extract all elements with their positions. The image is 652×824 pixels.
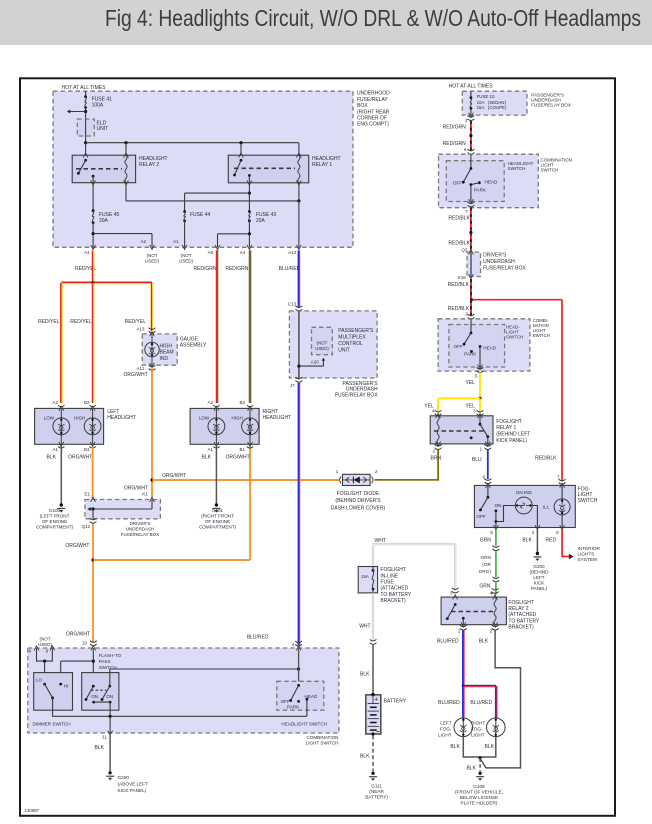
svg-text:BLK: BLK <box>202 455 212 461</box>
svg-text:UNDERDASH: UNDERDASH <box>483 259 515 265</box>
svg-text:HI: HI <box>64 683 69 688</box>
svg-text:B1: B1 <box>239 447 245 452</box>
svg-text:FUSE/RELAY BOX: FUSE/RELAY BOX <box>335 392 378 398</box>
svg-text:ORG): ORG) <box>479 569 492 574</box>
svg-text:LO: LO <box>36 678 43 683</box>
svg-text:(BEHIND DRIVER'S: (BEHIND DRIVER'S <box>335 498 381 504</box>
svg-text:RED/GRN: RED/GRN <box>225 266 248 272</box>
svg-text:ON: ON <box>106 694 113 699</box>
svg-text:BLU/RED: BLU/RED <box>470 700 492 706</box>
svg-text:A12: A12 <box>136 366 145 371</box>
svg-text:RED/YEL: RED/YEL <box>125 319 147 325</box>
svg-text:PARK: PARK <box>287 705 300 710</box>
svg-text:RED/BLK: RED/BLK <box>448 282 470 288</box>
svg-text:SWITCH: SWITCH <box>533 333 550 338</box>
svg-text:A2: A2 <box>140 239 146 244</box>
svg-text:(NOT: (NOT <box>317 341 328 346</box>
svg-text:OFF: OFF <box>281 699 290 704</box>
svg-text:KICK: KICK <box>534 581 546 586</box>
svg-text:BLK: BLK <box>360 754 370 760</box>
svg-text:OFF: OFF <box>453 181 462 186</box>
svg-text:(LEFT FRONT: (LEFT FRONT <box>40 513 70 518</box>
svg-text:ON IND: ON IND <box>516 490 533 495</box>
svg-text:(NOT: (NOT <box>147 253 158 258</box>
svg-text:(BEHIND LEFT: (BEHIND LEFT <box>496 432 530 438</box>
svg-text:ORG/WHT: ORG/WHT <box>68 455 92 461</box>
svg-text:(ABOVE LEFT: (ABOVE LEFT <box>118 781 149 786</box>
svg-text:SYSTEM: SYSTEM <box>578 557 597 562</box>
svg-text:RELAY 1: RELAY 1 <box>312 162 332 168</box>
svg-text:HEADLIGHT: HEADLIGHT <box>107 415 136 421</box>
svg-text:PANEL): PANEL) <box>531 586 548 591</box>
svg-text:FOG-: FOG- <box>440 727 452 732</box>
svg-text:RED/YEL: RED/YEL <box>38 319 60 325</box>
svg-text:PASSENGER'S: PASSENGER'S <box>338 328 374 334</box>
svg-text:RED/GRN: RED/GRN <box>443 141 466 147</box>
svg-text:ORG/WHT: ORG/WHT <box>226 455 250 461</box>
svg-text:PASS: PASS <box>99 659 111 664</box>
svg-text:OF ENGINE: OF ENGINE <box>42 519 67 524</box>
svg-text:PARK: PARK <box>474 187 487 192</box>
svg-text:SWITCH: SWITCH <box>508 166 526 171</box>
svg-text:DASH LOWER COVER): DASH LOWER COVER) <box>331 505 386 511</box>
svg-text:BATTERY): BATTERY) <box>365 795 388 800</box>
svg-text:LOW: LOW <box>44 416 55 421</box>
svg-text:FOG-: FOG- <box>471 727 483 732</box>
svg-text:BLK: BLK <box>485 744 495 750</box>
svg-text:DRIVER'S: DRIVER'S <box>483 253 507 259</box>
svg-text:BLK: BLK <box>479 639 489 645</box>
svg-text:FUSE: FUSE <box>380 580 394 586</box>
svg-text:TO BATTERY: TO BATTERY <box>380 592 412 598</box>
svg-text:KICK PANEL): KICK PANEL) <box>496 438 527 444</box>
svg-text:Q12: Q12 <box>81 524 90 529</box>
svg-text:FUSE/RELAY BOX: FUSE/RELAY BOX <box>483 265 526 271</box>
svg-text:FUSE 10: FUSE 10 <box>477 94 495 99</box>
svg-text:BLK: BLK <box>47 455 57 461</box>
svg-text:WHT: WHT <box>375 538 386 544</box>
svg-text:A1: A1 <box>173 239 179 244</box>
svg-text:HOT AT ALL TIMES: HOT AT ALL TIMES <box>62 85 107 91</box>
svg-text:FOGLIGHT: FOGLIGHT <box>508 600 534 606</box>
svg-text:ASSEMBLY: ASSEMBLY <box>180 343 207 349</box>
svg-text:G108: G108 <box>473 784 485 789</box>
svg-text:KICK PANEL): KICK PANEL) <box>118 788 147 793</box>
svg-text:OF ENGINE: OF ENGINE <box>205 519 230 524</box>
svg-text:BEAM: BEAM <box>160 350 174 356</box>
svg-text:A1: A1 <box>207 447 213 452</box>
svg-text:IN-LINE: IN-LINE <box>380 573 398 579</box>
svg-text:BRACKET): BRACKET) <box>508 624 534 630</box>
svg-text:FUSE/RELAY BOX: FUSE/RELAY BOX <box>531 103 572 108</box>
svg-text:(RIGHT REAR: (RIGHT REAR <box>357 109 390 115</box>
svg-text:LIGHT SWITCH: LIGHT SWITCH <box>306 741 339 746</box>
svg-text:PARK: PARK <box>464 352 477 357</box>
svg-text:G200: G200 <box>533 564 545 569</box>
svg-text:(NOT: (NOT <box>181 253 192 258</box>
svg-text:A13: A13 <box>136 327 145 332</box>
svg-text:ORG/WHT: ORG/WHT <box>162 473 186 479</box>
svg-text:CORNER OF: CORNER OF <box>357 115 387 121</box>
svg-text:A2: A2 <box>52 400 58 405</box>
svg-text:A4: A4 <box>240 250 246 255</box>
svg-text:BATTERY: BATTERY <box>384 699 407 705</box>
svg-text:HEADLIGHT: HEADLIGHT <box>263 415 292 421</box>
svg-text:(NEAR: (NEAR <box>369 789 384 794</box>
svg-text:BLU: BLU <box>472 457 482 463</box>
svg-text:BLK: BLK <box>522 538 532 544</box>
svg-text:A2: A2 <box>207 400 213 405</box>
svg-text:K16: K16 <box>458 275 467 280</box>
svg-text:(BEHIND: (BEHIND <box>530 569 550 574</box>
svg-text:(NOT: (NOT <box>40 637 51 642</box>
svg-text:FOGLIGHT DIODE: FOGLIGHT DIODE <box>337 491 380 497</box>
svg-text:HIGH: HIGH <box>232 416 243 421</box>
svg-text:11: 11 <box>102 735 107 740</box>
svg-text:A5: A5 <box>208 250 214 255</box>
svg-text:RELAY 1: RELAY 1 <box>496 425 516 431</box>
svg-text:ON: ON <box>495 503 502 508</box>
svg-text:HOT AT ALL TIMES: HOT AT ALL TIMES <box>449 84 494 90</box>
svg-text:COMPARTMENT): COMPARTMENT) <box>199 524 237 529</box>
svg-text:FUSE/RELAY: FUSE/RELAY <box>357 97 388 103</box>
svg-text:CONTROL: CONTROL <box>338 341 363 347</box>
svg-text:LEFT: LEFT <box>533 575 544 580</box>
svg-text:BLK: BLK <box>450 744 460 750</box>
svg-text:ON: ON <box>91 694 98 699</box>
svg-text:140997: 140997 <box>24 808 39 813</box>
svg-text:UNDERDASH: UNDERDASH <box>126 527 155 532</box>
svg-text:B1: B1 <box>84 447 90 452</box>
svg-text:RIGHT: RIGHT <box>471 721 485 726</box>
svg-text:BRACKET): BRACKET) <box>380 598 406 604</box>
svg-text:OFF: OFF <box>476 514 485 519</box>
svg-text:IND: IND <box>160 356 169 362</box>
svg-text:RED/GRN: RED/GRN <box>193 266 216 272</box>
svg-text:BOX: BOX <box>357 103 368 109</box>
svg-text:G100: G100 <box>49 508 61 513</box>
svg-text:C13: C13 <box>288 302 297 307</box>
svg-text:LIGHT: LIGHT <box>438 733 452 738</box>
svg-text:HIGH: HIGH <box>160 344 173 350</box>
svg-text:GRN: GRN <box>480 538 492 544</box>
svg-text:LEFT: LEFT <box>440 721 451 726</box>
svg-text:USED): USED) <box>179 258 194 263</box>
svg-text:15A: 15A <box>477 105 485 110</box>
svg-text:RED/BLK: RED/BLK <box>535 456 557 462</box>
svg-text:A13: A13 <box>288 250 297 255</box>
svg-text:UNIT: UNIT <box>97 126 109 132</box>
svg-text:SWITCH: SWITCH <box>541 167 559 172</box>
svg-text:USED): USED) <box>145 258 160 263</box>
svg-text:SWITCH: SWITCH <box>506 335 523 340</box>
svg-text:BLU/RED: BLU/RED <box>247 635 269 641</box>
svg-text:LOW: LOW <box>199 416 210 421</box>
svg-text:100A: 100A <box>92 102 104 108</box>
svg-text:UNDERHOOD: UNDERHOOD <box>357 91 390 97</box>
svg-text:RELAY 2: RELAY 2 <box>508 606 528 612</box>
svg-text:RED/BLK: RED/BLK <box>448 241 470 247</box>
svg-text:COMPARTMENT): COMPARTMENT) <box>36 524 74 529</box>
svg-text:PLATE HOLDER): PLATE HOLDER) <box>461 800 498 805</box>
svg-text:Fig 4: Headlights Circuit, W/O: Fig 4: Headlights Circuit, W/O DRL & W/O… <box>105 5 641 31</box>
svg-text:(OR: (OR <box>482 562 491 567</box>
svg-text:J7: J7 <box>290 383 295 388</box>
svg-text:RED/GRN: RED/GRN <box>443 125 466 131</box>
svg-text:BLK: BLK <box>95 745 105 751</box>
svg-text:E1: E1 <box>84 492 90 497</box>
svg-text:15A: 15A <box>361 574 369 579</box>
svg-text:G101: G101 <box>212 508 224 513</box>
svg-text:UNIT: UNIT <box>338 347 350 353</box>
svg-text:YEL: YEL <box>465 380 475 386</box>
svg-text:LIGHTS: LIGHTS <box>578 552 595 557</box>
svg-text:ORG/WHT: ORG/WHT <box>66 632 90 638</box>
svg-text:MULTIPLEX: MULTIPLEX <box>338 335 366 341</box>
svg-text:FUSE/RELAY BOX: FUSE/RELAY BOX <box>121 532 159 537</box>
svg-text:HEADLIGHT SWITCH: HEADLIGHT SWITCH <box>281 722 327 727</box>
svg-text:BELOW LICENSE: BELOW LICENSE <box>460 795 498 800</box>
svg-text:FUSE 44: FUSE 44 <box>190 212 211 218</box>
svg-text:G200: G200 <box>118 775 130 780</box>
svg-text:10: 10 <box>82 641 88 646</box>
svg-text:INTERIOR: INTERIOR <box>578 546 601 551</box>
svg-text:A20: A20 <box>311 360 320 365</box>
svg-text:RED/YEL: RED/YEL <box>70 319 92 325</box>
svg-text:G111: G111 <box>371 784 382 789</box>
svg-text:B2: B2 <box>239 400 245 405</box>
svg-text:ORG/WHT: ORG/WHT <box>124 372 148 378</box>
svg-text:OFF: OFF <box>454 344 463 349</box>
svg-text:LIGHT: LIGHT <box>471 733 485 738</box>
svg-text:K1: K1 <box>142 492 148 497</box>
svg-text:BRN: BRN <box>431 456 442 462</box>
svg-text:ENG COMPT): ENG COMPT) <box>357 122 389 128</box>
svg-text:BLK: BLK <box>466 766 476 772</box>
svg-text:(RIGHT FRONT: (RIGHT FRONT <box>201 513 234 518</box>
svg-text:COMBINATION: COMBINATION <box>306 735 338 740</box>
svg-text:WHT: WHT <box>359 624 370 630</box>
svg-text:20A: 20A <box>99 218 109 224</box>
svg-text:HEAD: HEAD <box>483 346 496 351</box>
svg-text:B2: B2 <box>84 400 90 405</box>
svg-text:FOGLIGHT: FOGLIGHT <box>496 419 522 425</box>
svg-text:(ATTACHED: (ATTACHED <box>508 612 536 618</box>
svg-text:GRN: GRN <box>479 584 491 590</box>
svg-text:(ATTACHED: (ATTACHED <box>380 586 408 592</box>
svg-text:DIMMER SWITCH: DIMMER SWITCH <box>33 722 71 727</box>
svg-text:HEAD: HEAD <box>485 180 498 185</box>
svg-text:RED/BLK: RED/BLK <box>448 215 470 221</box>
svg-text:USED): USED) <box>315 346 329 351</box>
svg-text:A1: A1 <box>52 447 58 452</box>
svg-text:USED): USED) <box>38 642 53 647</box>
svg-text:DRIVER'S: DRIVER'S <box>130 521 151 526</box>
svg-text:SWITCH: SWITCH <box>578 498 598 504</box>
svg-text:BLU/RED: BLU/RED <box>437 639 459 645</box>
svg-text:A3: A3 <box>84 250 90 255</box>
svg-text:(FRONT OF VEHICLE,: (FRONT OF VEHICLE, <box>455 789 503 794</box>
svg-text:BLU/RED: BLU/RED <box>279 266 301 272</box>
svg-text:FOGLIGHT: FOGLIGHT <box>380 567 406 573</box>
svg-text:20A: 20A <box>256 218 266 224</box>
svg-text:HIGH: HIGH <box>74 416 85 421</box>
svg-text:ORG/WHT: ORG/WHT <box>65 543 89 549</box>
svg-text:RED: RED <box>546 538 557 544</box>
svg-text:FLASH-TO: FLASH-TO <box>99 653 122 658</box>
svg-text:BLK: BLK <box>360 672 370 678</box>
svg-text:GRN: GRN <box>480 555 490 560</box>
svg-text:(COUPE): (COUPE) <box>488 105 507 110</box>
svg-text:GAUGE: GAUGE <box>180 337 199 343</box>
svg-text:BLU/RED: BLU/RED <box>438 700 460 706</box>
svg-text:ILL: ILL <box>543 505 550 510</box>
svg-text:RELAY 2: RELAY 2 <box>139 162 159 168</box>
svg-text:TO BATTERY: TO BATTERY <box>508 618 540 624</box>
svg-text:HEAD: HEAD <box>305 694 318 699</box>
